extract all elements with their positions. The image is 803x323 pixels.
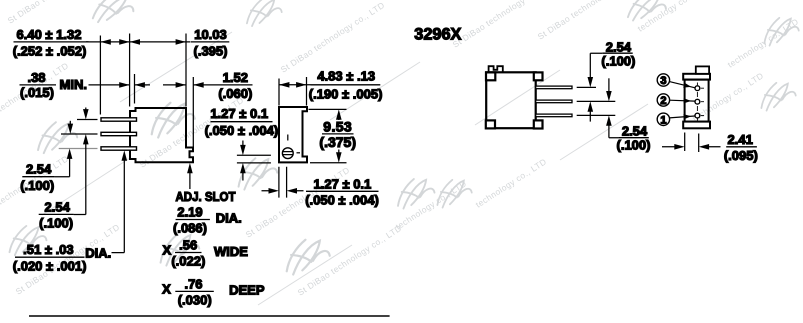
callout leader 1	[669, 116, 694, 118]
svg-text:X: X	[162, 281, 171, 296]
ah fig3 P2 down	[606, 91, 612, 101]
callout leader 2	[670, 99, 695, 102]
ah 1.52 right	[193, 82, 203, 88]
ext 9.53 top	[309, 108, 347, 110]
bar .51	[15, 256, 85, 258]
ah 6.40 left	[100, 39, 110, 45]
svg-text:(.020 ± .001): (.020 ± .001)	[13, 258, 87, 273]
ext line tab outer	[192, 77, 194, 147]
leader 2.54 lower to P2	[74, 142, 86, 215]
dim 4.83 line	[279, 84, 311, 86]
svg-text:(.050 ± .004): (.050 ± .004)	[305, 193, 379, 208]
bar 6.40	[14, 41, 89, 43]
svg-text:(.375): (.375)	[319, 134, 356, 150]
svg-text:.76: .76	[184, 276, 202, 291]
ah 1.52 left	[176, 82, 186, 88]
fig3 top boss	[489, 66, 503, 72]
bar 1.27 upper	[211, 121, 273, 123]
ext 9.53 bottom	[310, 162, 347, 164]
ext line pin tip	[99, 36, 101, 115]
svg-text:(.190 ± .005): (.190 ± .005)	[309, 87, 383, 102]
ah fig3 P2 up	[588, 101, 594, 111]
svg-text:2.54: 2.54	[606, 39, 632, 54]
bar .38	[20, 84, 57, 86]
svg-text:(.022): (.022)	[171, 254, 205, 269]
fig3 foot BR	[534, 120, 543, 128]
ah 9.53 up	[336, 109, 342, 119]
dim 9.53 vertical	[338, 117, 340, 156]
pin2 ext line	[61, 133, 98, 135]
svg-text:.38: .38	[27, 70, 45, 85]
ah P2 down	[68, 124, 74, 134]
svg-text:(.086): (.086)	[173, 221, 207, 236]
svg-text:1.52: 1.52	[223, 70, 248, 85]
ah 4.83 right	[296, 82, 306, 88]
bar 2.54 left2	[39, 213, 74, 215]
ext line body left	[129, 34, 131, 107]
ah pin dia up	[122, 150, 128, 160]
fig4 pin circle 2	[695, 99, 700, 104]
bar 2.54 fig3 top	[602, 52, 632, 54]
svg-text:1: 1	[660, 114, 666, 126]
svg-text:DEEP: DEEP	[229, 283, 265, 298]
svg-text:(.252 ± .052): (.252 ± .052)	[13, 43, 87, 58]
svg-text:ADJ. SLOT: ADJ. SLOT	[176, 189, 236, 204]
svg-text:(.030): (.030)	[178, 293, 212, 308]
fig2 screw slot	[283, 152, 293, 155]
arrow shaft 1.27 upper	[242, 141, 244, 148]
ah 1.27 lower right	[287, 188, 297, 194]
svg-text:1.27 ± 0.1: 1.27 ± 0.1	[314, 176, 372, 191]
leader adj slot	[189, 170, 191, 189]
fig3 up arrow shaft 2	[609, 123, 619, 138]
fig3 pin 1	[536, 86, 572, 89]
svg-text:DIA.: DIA.	[85, 245, 111, 260]
fig2 centerline above screw	[287, 135, 289, 141]
svg-text:.56: .56	[179, 238, 197, 253]
ah .38 right	[135, 82, 145, 88]
dim 2.41 ext left	[684, 133, 686, 152]
svg-text:X: X	[163, 242, 172, 257]
fig3 down arrow shaft 2	[608, 78, 610, 93]
ah 9.53 down	[336, 152, 342, 162]
svg-text:3296X: 3296X	[414, 25, 461, 43]
ext line body right	[185, 34, 187, 107]
fig2 centerline right of screw	[297, 152, 301, 154]
fig1 pin 1	[101, 118, 137, 121]
fig4 top band	[683, 74, 710, 80]
svg-text:2.54: 2.54	[26, 162, 52, 177]
svg-text:2.41: 2.41	[728, 132, 753, 147]
svg-text:(.100): (.100)	[39, 216, 73, 231]
pin3 ext line	[59, 148, 98, 150]
bar .56	[175, 252, 202, 254]
fig3 pin 2	[536, 100, 572, 103]
svg-text:2.54: 2.54	[622, 124, 648, 139]
ext line lip inner	[134, 74, 136, 104]
bar 2.19	[176, 219, 210, 221]
ah P1 down	[83, 109, 89, 119]
ah callout 3	[683, 83, 692, 90]
fig1 pin 3	[101, 147, 137, 150]
ah callout 2	[684, 98, 692, 103]
dim 2.41 ext right	[698, 134, 700, 153]
fig1 pin 2	[101, 132, 137, 135]
ah adj slot up	[187, 163, 193, 173]
fig1 body outline	[130, 108, 193, 162]
ah .38 left	[119, 82, 129, 88]
bar 2.54 fig3 bottom	[618, 137, 648, 139]
arrow shaft 1.27 lower	[242, 171, 244, 181]
ah 1.27 slot up	[240, 163, 246, 173]
ah P3 up	[67, 149, 73, 159]
arrowheads	[67, 39, 709, 194]
leader 2.54 upper to P3	[55, 157, 70, 177]
svg-text:10.03: 10.03	[194, 27, 227, 42]
bar 1.52	[212, 84, 253, 86]
svg-text:(.095): (.095)	[724, 148, 758, 163]
svg-text:(.100): (.100)	[601, 53, 635, 68]
ah 2.41 left	[674, 144, 684, 150]
fraction bars	[14, 42, 757, 316]
svg-text:(.015): (.015)	[20, 85, 54, 100]
fig3 foot TR	[534, 72, 543, 80]
svg-text:.51 ± .03: .51 ± .03	[23, 242, 74, 257]
dim 1.27 slot lines	[237, 155, 271, 163]
ah 4.83 left	[279, 82, 289, 88]
fig4 centerline dashes	[696, 83, 698, 121]
ah 10.03 right	[176, 39, 186, 45]
svg-text:2.19: 2.19	[177, 205, 202, 220]
bar 1.27 lower	[306, 190, 379, 192]
svg-text:(.050 ± .004): (.050 ± .004)	[205, 123, 279, 138]
svg-text:(.395): (.395)	[194, 43, 228, 58]
pin1 ext line	[77, 119, 98, 121]
fig3 pin2 ext	[577, 100, 616, 102]
fig2 screw circle	[282, 148, 293, 159]
callout circle 2	[657, 94, 669, 106]
dim .38 line	[89, 84, 151, 86]
bar 2.41	[726, 146, 757, 148]
svg-text:(.100): (.100)	[617, 138, 651, 153]
dim 2.41 arrow tails	[662, 146, 721, 148]
ah fig3 P3 up	[606, 115, 612, 125]
callout leader 3	[669, 82, 694, 88]
svg-text:4.83 ± .13: 4.83 ± .13	[317, 69, 375, 84]
arrow shaft down P1	[85, 108, 87, 113]
leader pin dia	[112, 158, 125, 253]
ah 6.40 right	[119, 39, 129, 45]
fig3 foot TL	[486, 72, 495, 80]
fig3 body square	[486, 72, 536, 128]
fig4 pin circle 3	[695, 113, 700, 118]
fig4 pin dash ticks	[701, 88, 704, 115]
svg-text:6.40 ± 1.32: 6.40 ± 1.32	[17, 27, 82, 42]
ah 1.27 lower left	[269, 188, 279, 194]
fig4 body	[685, 80, 709, 122]
callout circle 3	[657, 74, 669, 86]
bar 2.54 left1	[22, 176, 55, 178]
ah callout 1	[683, 114, 691, 120]
ah P2 up	[83, 134, 89, 144]
ah 1.27 slot down	[240, 145, 246, 155]
ext fig2 left up	[278, 79, 280, 106]
svg-text:MIN.: MIN.	[60, 77, 87, 92]
ah fig3 P1 down	[588, 77, 594, 87]
bar 10.03	[191, 41, 229, 43]
svg-text:(.100): (.100)	[20, 178, 54, 193]
ah 2.41 right	[699, 144, 709, 150]
fig2 body outline	[279, 107, 307, 162]
fig3 pin1 ext	[577, 86, 596, 88]
arrow shaft down P2	[69, 121, 71, 128]
fig3 pin 3	[536, 114, 572, 117]
bar .76	[175, 290, 214, 292]
ah 10.03 left	[130, 39, 140, 45]
svg-text:DIA.: DIA.	[216, 210, 242, 225]
fig3 foot BL	[486, 120, 495, 128]
fig4 bottom band	[683, 122, 710, 129]
dim 1.27 lower verticals	[279, 167, 287, 198]
svg-text:9.53: 9.53	[323, 118, 352, 134]
svg-text:1.27 ± 0.1: 1.27 ± 0.1	[210, 106, 268, 121]
svg-text:(.060): (.060)	[218, 86, 252, 101]
fig4 pin circle 1	[695, 86, 700, 91]
dim 1.27 lower arrow tails	[262, 190, 304, 192]
bar 9.53	[322, 133, 354, 135]
svg-text:2: 2	[660, 95, 666, 107]
ext fig2 right up	[306, 77, 308, 106]
dim 1.52 line	[163, 84, 212, 86]
fig3 up arrow shaft 1	[589, 109, 591, 121]
bar 4.83	[311, 84, 381, 86]
fig4 top tab	[696, 66, 709, 73]
callout circle 1	[657, 113, 669, 125]
bottom border line	[29, 315, 390, 317]
fig3 pin3 ext	[577, 114, 616, 116]
dim 6.40/10.03 line	[86, 41, 191, 43]
svg-text:WIDE: WIDE	[214, 244, 248, 259]
svg-text:2.54: 2.54	[45, 199, 71, 214]
fig3 dim top leader	[590, 53, 602, 79]
svg-text:3: 3	[660, 75, 666, 87]
